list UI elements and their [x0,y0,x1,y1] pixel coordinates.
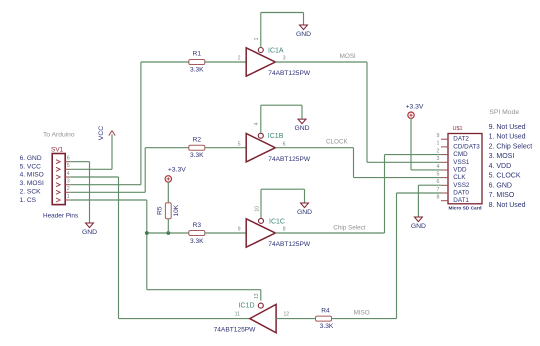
svg-text:SV1: SV1 [51,147,64,154]
svg-text:4. VDD: 4. VDD [489,163,512,170]
svg-text:GND: GND [82,229,97,236]
svg-text:5: 5 [238,141,241,147]
svg-text:Chip Select: Chip Select [333,224,365,231]
svg-text:9: 9 [238,227,241,233]
svg-text:IC1A: IC1A [268,48,284,55]
svg-text:VCC: VCC [98,126,105,140]
svg-text:6. GND: 6. GND [489,182,512,189]
svg-text:CMD: CMD [453,151,468,158]
svg-text:Header Pins: Header Pins [43,212,78,219]
svg-text:DAT2: DAT2 [453,136,469,143]
svg-text:9. Not Used: 9. Not Used [489,124,526,131]
svg-text:10: 10 [255,206,261,212]
svg-text:3.3K: 3.3K [190,66,204,73]
svg-text:6: 6 [437,179,440,185]
svg-text:CLK: CLK [453,174,466,181]
svg-text:5: 5 [67,163,70,169]
svg-text:2. SCK: 2. SCK [20,188,41,195]
svg-text:3.3K: 3.3K [320,323,334,330]
svg-text:13: 13 [254,293,260,299]
svg-text:+3.3V: +3.3V [168,167,186,174]
svg-text:74ABT125PW: 74ABT125PW [268,156,311,163]
svg-text:R2: R2 [193,136,202,143]
svg-text:6. GND: 6. GND [20,155,42,162]
svg-text:VSS1: VSS1 [453,159,470,166]
svg-text:GND: GND [411,223,426,230]
svg-text:3.3K: 3.3K [190,238,204,245]
svg-text:1: 1 [67,194,70,200]
svg-text:2: 2 [437,148,440,154]
svg-text:4. MISO: 4. MISO [20,172,44,179]
svg-text:2: 2 [238,56,241,62]
svg-text:6: 6 [283,141,286,147]
svg-text:CLOCK: CLOCK [326,139,348,146]
svg-text:U$1: U$1 [453,126,463,132]
svg-text:8: 8 [437,195,440,201]
svg-text:10K: 10K [173,204,180,216]
svg-text:1. CS: 1. CS [20,197,37,204]
svg-text:74ABT125PW: 74ABT125PW [214,327,257,334]
svg-text:Micro SD Card: Micro SD Card [448,205,481,211]
svg-text:GND: GND [297,209,312,216]
svg-text:2. Chip Select: 2. Chip Select [489,143,533,150]
svg-text:8. Not Used: 8. Not Used [489,202,526,209]
svg-text:GND: GND [296,31,311,38]
svg-text:3. MOSI: 3. MOSI [489,153,515,160]
svg-text:3: 3 [67,179,70,185]
svg-text:DAT0: DAT0 [453,190,469,197]
svg-text:+3.3V: +3.3V [406,104,424,111]
svg-text:MISO: MISO [354,309,370,316]
svg-text:VDD: VDD [453,167,467,174]
svg-text:7: 7 [437,187,440,193]
svg-text:SPI Mode: SPI Mode [489,109,519,116]
svg-text:3. MOSI: 3. MOSI [20,180,44,187]
svg-text:4: 4 [437,164,440,170]
svg-text:5. CLOCK: 5. CLOCK [489,173,521,180]
svg-text:R1: R1 [193,51,202,58]
svg-text:9: 9 [437,133,440,139]
svg-text:3: 3 [437,156,440,162]
svg-text:IC1C: IC1C [269,218,285,225]
svg-text:IC1B: IC1B [268,133,284,140]
svg-text:VSS2: VSS2 [453,182,470,189]
svg-text:12: 12 [284,311,290,317]
svg-text:3.3K: 3.3K [190,152,204,159]
svg-text:2: 2 [67,186,70,192]
svg-text:74ABT125PW: 74ABT125PW [268,241,311,248]
svg-text:7. MISO: 7. MISO [489,192,515,199]
svg-text:5: 5 [437,171,440,177]
svg-text:1: 1 [254,37,260,40]
svg-text:8: 8 [283,227,286,233]
svg-text:1: 1 [437,141,440,147]
svg-text:4: 4 [254,122,260,125]
svg-text:IC1D: IC1D [239,303,255,310]
svg-text:MOSI: MOSI [340,53,356,60]
svg-text:5. VCC: 5. VCC [20,163,41,170]
svg-text:R5: R5 [157,206,164,215]
svg-text:1. Not Used: 1. Not Used [489,134,526,141]
svg-text:DAT1: DAT1 [453,197,469,204]
svg-text:R4: R4 [321,308,330,315]
svg-text:4: 4 [67,171,70,177]
svg-text:74ABT125PW: 74ABT125PW [268,70,311,77]
svg-text:CD/DAT3: CD/DAT3 [453,143,480,150]
svg-text:GND: GND [294,125,309,132]
svg-text:R3: R3 [193,222,202,229]
svg-text:6: 6 [67,156,70,162]
svg-text:To Arduino: To Arduino [43,132,75,139]
svg-text:3: 3 [283,56,286,62]
svg-text:11: 11 [235,311,240,317]
